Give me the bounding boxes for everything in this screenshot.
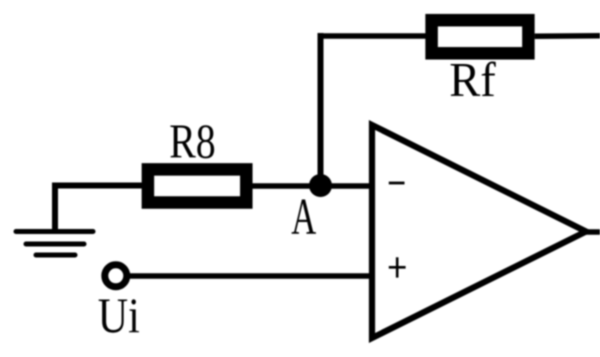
wire R8 to op-amp inverting input: [253, 183, 373, 189]
svg-text:R8: R8: [169, 114, 216, 169]
svg-text:Ui: Ui: [98, 287, 140, 343]
wire from ground up and right to R8: [55, 186, 144, 232]
wire Rf to right edge: [535, 33, 600, 39]
output wire: [583, 229, 600, 235]
svg-text:A: A: [291, 189, 316, 246]
wire node A up: [318, 33, 324, 189]
resistor Rf: [432, 20, 529, 53]
wire Ui to op-amp non-inverting input: [128, 273, 372, 279]
terminal Ui: [105, 265, 127, 287]
plus sign (non-inverting input): [389, 257, 406, 277]
svg-text:Rf: Rf: [449, 52, 496, 107]
op-amp U1: [372, 125, 586, 338]
minus sign (inverting input): [389, 182, 405, 185]
node A junction dot: [309, 174, 332, 197]
resistor R8: [148, 169, 246, 202]
wire top to Rf: [318, 33, 428, 39]
ground: [16, 232, 93, 256]
